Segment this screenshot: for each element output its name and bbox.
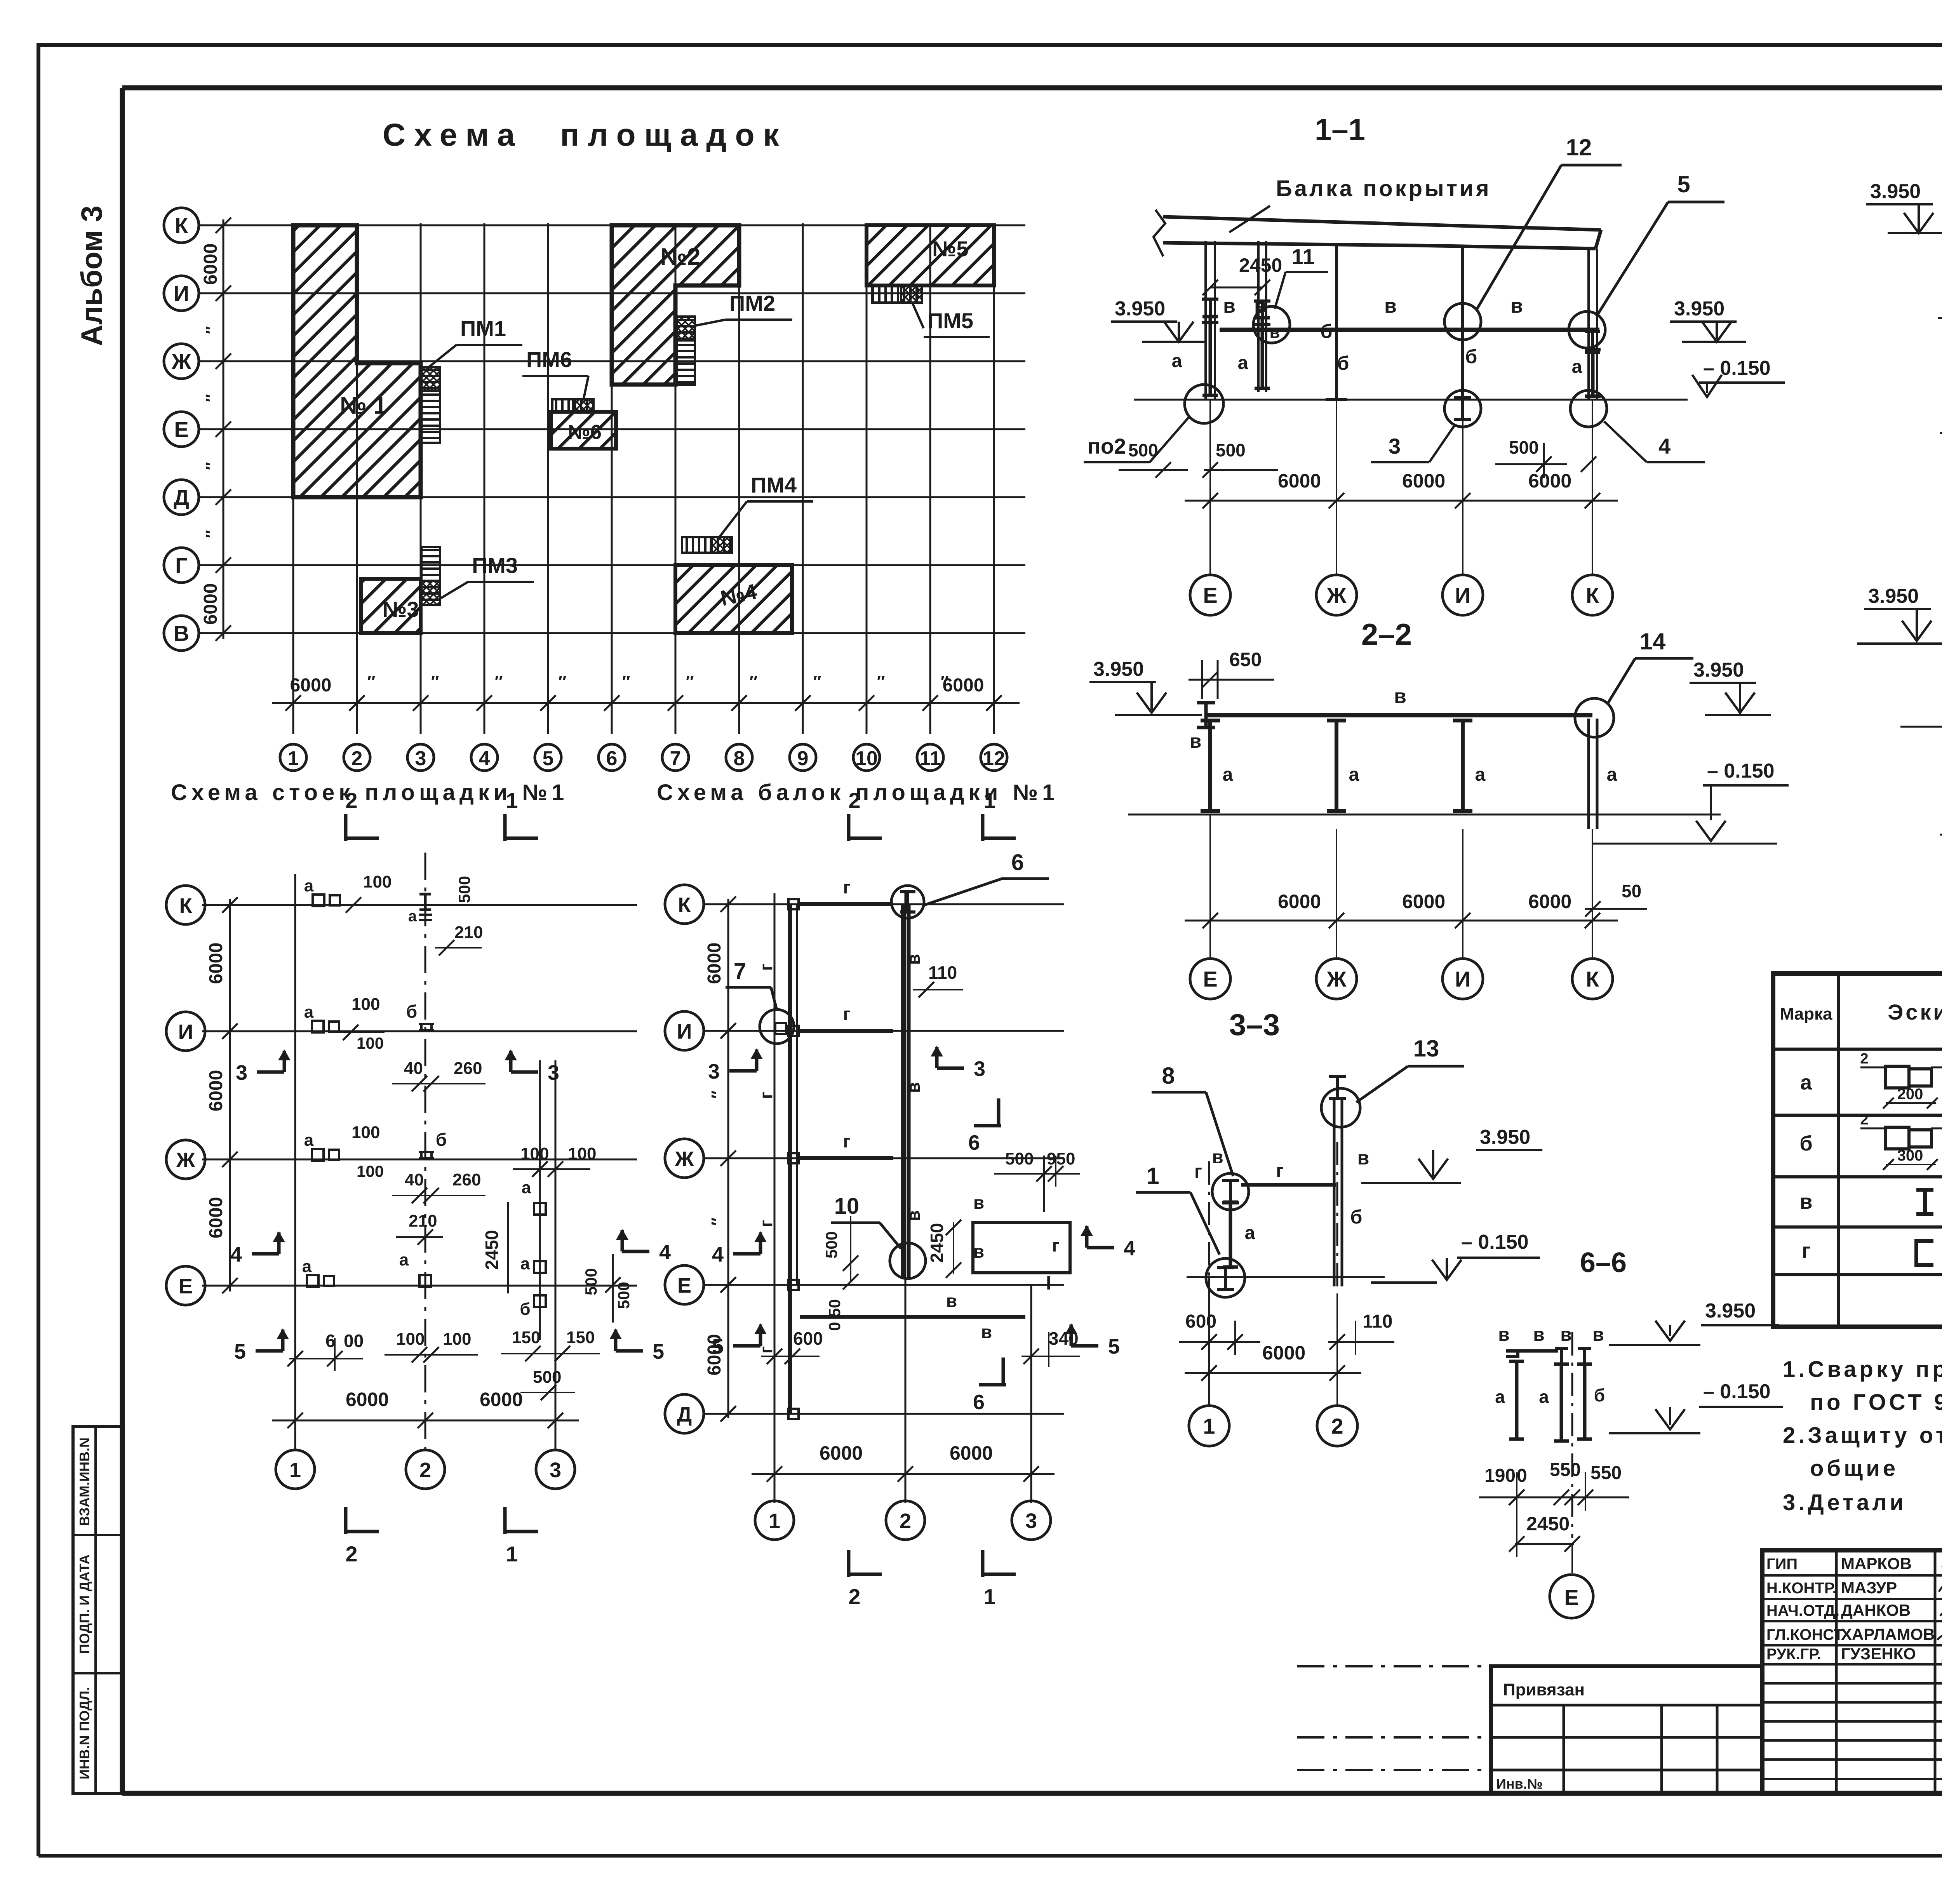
svg-text:″: ″	[877, 672, 885, 691]
svg-text:6000: 6000	[1402, 891, 1445, 912]
svg-text:6000: 6000	[1278, 891, 1321, 912]
svg-text:3: 3	[1389, 434, 1401, 458]
svg-text:а: а	[1800, 1071, 1812, 1094]
posts layout column axes	[294, 874, 296, 1449]
svg-text:а: а	[1495, 1387, 1505, 1407]
svg-text:6000: 6000	[1262, 1342, 1305, 1364]
beams section 6 cut marks	[974, 1124, 1001, 1128]
row a sketch	[1886, 1066, 1932, 1088]
svg-text:190: 190	[1484, 1465, 1516, 1486]
svg-text:100: 100	[357, 1034, 384, 1052]
svg-text:500: 500	[822, 1231, 840, 1258]
svg-text:в: в	[1592, 1324, 1604, 1345]
svg-text:″: ″	[813, 672, 821, 691]
platform N6 monorail PM6	[552, 399, 593, 412]
plan row circles	[164, 208, 199, 243]
svg-text:″: ″	[202, 394, 221, 402]
svg-text:3.950: 3.950	[1480, 1126, 1530, 1149]
svg-text:а: а	[1238, 353, 1248, 373]
svg-text:3.950: 3.950	[1705, 1300, 1756, 1322]
svg-text:2: 2	[1860, 1112, 1868, 1128]
svg-text:5: 5	[1108, 1335, 1120, 1358]
beams cut marks top	[847, 814, 851, 841]
node circle at И beam (1-1)	[1444, 303, 1481, 340]
platform N1 monorail PM1	[421, 367, 440, 443]
svg-text:в: в	[1223, 295, 1236, 317]
posts section cut marks top	[344, 814, 348, 841]
svg-text:ГЛ.КОНСТ: ГЛ.КОНСТ	[1766, 1626, 1843, 1643]
svg-text:б: б	[1799, 1132, 1812, 1155]
svg-text:6000: 6000	[346, 1389, 389, 1410]
column 1 (3-3)	[1208, 1161, 1210, 1295]
svg-text:6: 6	[973, 1391, 985, 1414]
svg-text:ПМ3: ПМ3	[472, 553, 518, 578]
svg-text:3.950: 3.950	[1870, 180, 1921, 203]
svg-text:№6: №6	[568, 421, 602, 444]
svg-text:8: 8	[1162, 1063, 1175, 1089]
ground line (5-5)	[1900, 726, 1942, 728]
sections table frame	[1773, 973, 1942, 1327]
beam g (3-3)	[1241, 1183, 1336, 1187]
platform N3 hatched area	[361, 579, 421, 633]
svg-text:ПМ2: ПМ2	[729, 291, 775, 315]
ground line (2-2)	[1128, 814, 1721, 816]
svg-text:6000: 6000	[704, 943, 725, 984]
inner drawing frame	[122, 85, 1942, 91]
svg-text:г: г	[843, 1131, 850, 1151]
ground line (4-4)	[1938, 317, 1942, 319]
svg-text:6: 6	[1011, 850, 1024, 875]
svg-text:б: б	[520, 1300, 530, 1319]
svg-text:ГИП: ГИП	[1766, 1556, 1798, 1573]
platform N1 hatched area	[293, 225, 421, 497]
svg-text:№3: №3	[383, 597, 419, 621]
svg-text:в: в	[1510, 295, 1523, 317]
svg-text:в: в	[1394, 685, 1406, 708]
svg-text:а: а	[1223, 764, 1233, 785]
svg-text:6000: 6000	[290, 675, 332, 696]
svg-text:″: ″	[940, 672, 948, 691]
auxiliary column at 2450 (1-1)	[1257, 241, 1260, 392]
svg-text:3: 3	[974, 1057, 985, 1081]
svg-text:в: в	[1799, 1190, 1812, 1213]
platform N2 hatched area	[612, 225, 739, 385]
beams layout row axes	[705, 903, 1064, 905]
svg-text:2: 2	[848, 788, 860, 813]
beams vertical beam at col2	[901, 904, 905, 1278]
svg-text:а: а	[520, 1254, 530, 1273]
svg-text:Инв.№: Инв.№	[1496, 1776, 1543, 1792]
svg-text:Д: Д	[677, 1403, 692, 1426]
svg-text:в: в	[903, 954, 924, 965]
svg-text:3: 3	[548, 1061, 559, 1084]
svg-text:ПМ6: ПМ6	[526, 347, 572, 372]
svg-text:″: ″	[202, 326, 221, 334]
svg-text:100: 100	[352, 995, 380, 1014]
top beam (2-2)	[1206, 713, 1592, 717]
svg-text:1: 1	[289, 1458, 301, 1482]
posts node squares row E	[307, 1275, 318, 1287]
svg-text:550: 550	[1590, 1463, 1622, 1483]
svg-text:Е: Е	[1203, 583, 1217, 607]
svg-text:в: в	[1269, 323, 1280, 342]
svg-text:в: в	[973, 1192, 984, 1213]
title block signature table	[1762, 1550, 1942, 1794]
columns (2-2)	[1208, 721, 1212, 811]
svg-text:6000: 6000	[206, 943, 226, 984]
svg-text:2450: 2450	[927, 1223, 947, 1263]
svg-text:НАЧ.ОТД.: НАЧ.ОТД.	[1766, 1602, 1839, 1619]
svg-text:а: а	[1539, 1387, 1549, 1407]
beams layout bottom dim line	[752, 1473, 1055, 1475]
svg-text:Е: Е	[179, 1275, 193, 1298]
svg-text:3.950: 3.950	[1674, 298, 1724, 320]
sections table header rows	[1773, 1048, 1942, 1051]
column K (2-2)	[1587, 719, 1590, 829]
plan row axis lines	[199, 225, 1025, 226]
svg-text:Е: Е	[174, 417, 188, 442]
beams cut marks bottom	[847, 1550, 851, 1577]
svg-text:6000: 6000	[200, 244, 221, 285]
svg-text:1: 1	[1146, 1163, 1159, 1189]
svg-text:Ж: Ж	[675, 1147, 694, 1171]
svg-text:в: в	[1384, 295, 1397, 317]
svg-text:И: И	[677, 1020, 692, 1043]
svg-text:в: в	[1357, 1147, 1369, 1169]
platform N2 monorail PM2	[677, 317, 695, 385]
svg-text:І: І	[1046, 1272, 1051, 1294]
svg-text:1: 1	[506, 1542, 518, 1566]
svg-text:0: 0	[1517, 1465, 1527, 1486]
svg-text:150: 150	[566, 1328, 595, 1347]
svg-text:в: в	[973, 1241, 984, 1262]
svg-text:в: в	[1560, 1324, 1572, 1345]
svg-text:МАРКОВ: МАРКОВ	[1841, 1554, 1912, 1573]
svg-text:110: 110	[928, 962, 957, 983]
platform N3 monorail PM3	[421, 547, 440, 605]
base node circles (1-1)	[1185, 385, 1223, 423]
svg-text:Е: Е	[1203, 967, 1217, 991]
svg-text:И: И	[178, 1020, 193, 1044]
svg-text:2: 2	[352, 747, 363, 770]
svg-text:1: 1	[1203, 1414, 1215, 1438]
svg-text:г: г	[756, 1220, 776, 1227]
posts node squares row K	[313, 895, 324, 906]
svg-text:2: 2	[345, 1542, 357, 1566]
beams layout row circles	[665, 885, 704, 924]
svg-text:б: б	[1350, 1206, 1363, 1228]
svg-text:6000: 6000	[1528, 891, 1571, 912]
svg-text:210: 210	[454, 923, 483, 942]
svg-text:2450: 2450	[482, 1230, 502, 1270]
svg-text:а: а	[1349, 764, 1359, 785]
svg-text:а: а	[399, 1250, 409, 1269]
svg-text:40: 40	[405, 1170, 424, 1189]
beams horizontal beams	[800, 902, 893, 906]
svg-text:6000: 6000	[480, 1389, 523, 1410]
svg-text:8: 8	[734, 747, 745, 770]
svg-text:110: 110	[1363, 1311, 1392, 1332]
svg-text:650: 650	[1229, 649, 1262, 670]
svg-text:1: 1	[769, 1509, 780, 1533]
column 2 upper part (3-3)	[1336, 1077, 1339, 1098]
left stamp boxes	[73, 1426, 124, 1793]
svg-text:2450: 2450	[1526, 1513, 1570, 1535]
svg-text:100: 100	[352, 1123, 380, 1142]
svg-text:6–6: 6–6	[1580, 1247, 1627, 1278]
svg-text:7: 7	[670, 747, 681, 770]
svg-text:И: И	[1455, 967, 1470, 991]
svg-text:100: 100	[520, 1144, 549, 1163]
main dimension line (4-4)	[1940, 432, 1942, 434]
posts node squares row Zh	[312, 1149, 324, 1161]
beams layout column axes	[774, 893, 776, 1503]
svg-text:6: 6	[325, 1331, 336, 1351]
svg-text:3: 3	[550, 1458, 561, 1482]
svg-text:а: а	[304, 1002, 314, 1022]
svg-text:50: 50	[1622, 881, 1641, 901]
plan column circles	[280, 744, 306, 771]
svg-text:4: 4	[479, 747, 490, 770]
svg-text:500: 500	[1216, 440, 1246, 460]
svg-text:2.Защиту от коррозии: 2.Защиту от коррозии	[1783, 1423, 1942, 1448]
svg-text:а: а	[408, 908, 417, 925]
svg-text:2: 2	[345, 788, 357, 813]
svg-text:5: 5	[543, 747, 554, 770]
plan column axis lines	[292, 223, 294, 734]
svg-text:″: ″	[202, 462, 221, 470]
main dimension line (1-1)	[1185, 500, 1618, 502]
svg-text:6000: 6000	[950, 1442, 993, 1464]
svg-text:3.Детали: 3.Детали	[1783, 1490, 1907, 1515]
posts layout row axes	[202, 904, 637, 906]
svg-text:б: б	[406, 1001, 417, 1022]
svg-text:500: 500	[1005, 1149, 1034, 1168]
svg-text:площадок: площадок	[560, 117, 788, 153]
svg-text:3.950: 3.950	[1693, 659, 1744, 681]
svg-text:ХАРЛАМОВ: ХАРЛАМОВ	[1841, 1625, 1935, 1643]
svg-text:300: 300	[1897, 1147, 1923, 1164]
svg-text:3: 3	[415, 747, 426, 770]
svg-text:б: б	[1321, 320, 1333, 342]
svg-text:6000: 6000	[206, 1070, 226, 1112]
platform N4 monorail PM4	[682, 537, 732, 553]
svg-text:ВЗАМ.ИНВ.N: ВЗАМ.ИНВ.N	[77, 1438, 92, 1526]
svg-text:1.Сварку производить электрода: 1.Сварку производить электродами типа Э4…	[1783, 1357, 1942, 1382]
svg-text:6000: 6000	[943, 675, 984, 696]
ground line (1-1)	[1134, 399, 1688, 401]
svg-text:ПМ5: ПМ5	[927, 308, 973, 333]
svg-text:600: 600	[1185, 1311, 1216, 1332]
svg-text:г: г	[756, 963, 776, 971]
svg-text:″: ″	[202, 530, 221, 538]
svg-text:№2: №2	[660, 244, 701, 270]
svg-text:″: ″	[494, 672, 503, 691]
svg-text:″: ″	[367, 672, 375, 691]
svg-text:6000: 6000	[206, 1197, 226, 1239]
svg-text:500: 500	[455, 876, 473, 903]
svg-text:1–1: 1–1	[1315, 112, 1365, 146]
svg-text:200: 200	[1897, 1086, 1923, 1103]
svg-text:2: 2	[900, 1509, 911, 1533]
svg-text:100: 100	[443, 1330, 471, 1349]
svg-text:а: а	[1475, 764, 1486, 785]
svg-text:6000: 6000	[200, 583, 221, 625]
svg-text:2: 2	[1331, 1414, 1343, 1438]
svg-text:а: а	[1607, 764, 1617, 785]
svg-text:5: 5	[712, 1335, 724, 1358]
svg-text:Привязан: Привязан	[1503, 1680, 1585, 1699]
posts node squares row I	[312, 1021, 324, 1032]
svg-text:по2: по2	[1088, 434, 1126, 458]
svg-text:4: 4	[1658, 434, 1671, 458]
column E (1-1)	[1204, 241, 1207, 399]
privyazan box	[1491, 1666, 1762, 1794]
svg-text:К: К	[1586, 967, 1599, 991]
svg-text:5: 5	[1677, 171, 1690, 197]
svg-text:5: 5	[653, 1340, 664, 1363]
svg-text:г: г	[756, 1091, 776, 1099]
svg-text:б: б	[1594, 1385, 1605, 1405]
svg-text:3.950: 3.950	[1115, 298, 1165, 320]
svg-text:Схема: Схема	[383, 117, 524, 153]
svg-text:2: 2	[419, 1458, 431, 1482]
svg-text:550: 550	[1550, 1460, 1581, 1480]
svg-text:″: ″	[749, 672, 757, 691]
svg-text:9: 9	[797, 747, 809, 770]
svg-text:11: 11	[920, 747, 941, 770]
svg-text:2: 2	[1860, 1051, 1868, 1067]
svg-text:г: г	[1194, 1161, 1202, 1182]
svg-text:В: В	[174, 621, 189, 646]
svg-text:500: 500	[1509, 437, 1539, 458]
column Ж (1-1)	[1335, 245, 1338, 399]
svg-text:″: ″	[622, 672, 630, 691]
svg-text:ДАНКОВ: ДАНКОВ	[1841, 1601, 1911, 1619]
svg-text:11: 11	[1291, 244, 1314, 269]
svg-text:Е: Е	[677, 1274, 691, 1297]
svg-text:4: 4	[230, 1243, 242, 1266]
svg-text:10: 10	[834, 1194, 860, 1219]
svg-text:а: а	[1172, 351, 1182, 371]
svg-text:210: 210	[409, 1211, 437, 1230]
grid circles (2-2)	[1190, 959, 1230, 999]
svg-text:Е: Е	[1564, 1585, 1578, 1610]
svg-text:6: 6	[968, 1131, 980, 1154]
plan left dimension line	[223, 219, 224, 639]
grid circles (3-3)	[1189, 1406, 1229, 1446]
svg-text:– 0.150: – 0.150	[1707, 760, 1775, 782]
beams node circle 10	[890, 1243, 926, 1279]
main dimension line (5-5)	[1940, 834, 1942, 836]
node circle at К beam (1-1)	[1569, 312, 1605, 348]
svg-text:2450: 2450	[1239, 254, 1282, 276]
svg-text:6000: 6000	[820, 1442, 863, 1464]
svg-text:И: И	[1455, 583, 1470, 607]
svg-text:1: 1	[506, 788, 518, 813]
svg-text:Альбом 3: Альбом 3	[75, 205, 108, 346]
svg-text:14: 14	[1640, 628, 1666, 654]
svg-text:ПМ1: ПМ1	[460, 316, 506, 341]
svg-text:– 0.150: – 0.150	[1703, 357, 1771, 379]
svg-text:а: а	[1245, 1223, 1255, 1243]
svg-text:Марка: Марка	[1780, 1004, 1832, 1023]
svg-text:0: 0	[825, 1322, 844, 1331]
posts layout row circles	[166, 886, 205, 924]
svg-text:40: 40	[404, 1059, 423, 1078]
svg-text:г: г	[1276, 1161, 1284, 1181]
svg-text:К: К	[678, 893, 691, 917]
svg-text:а: а	[304, 876, 314, 895]
svg-text:4: 4	[712, 1243, 724, 1266]
svg-text:в: в	[1190, 730, 1202, 752]
svg-text:″: ″	[686, 672, 694, 691]
svg-text:260: 260	[454, 1059, 482, 1078]
svg-text:а: а	[304, 1131, 314, 1150]
svg-text:№ 1: № 1	[340, 392, 387, 419]
svg-text:И: И	[174, 281, 189, 306]
svg-text:10: 10	[855, 747, 878, 770]
svg-text:а: а	[522, 1178, 531, 1197]
svg-text:1: 1	[983, 1584, 995, 1609]
svg-text:12: 12	[1566, 134, 1592, 160]
svg-text:Ж: Ж	[1326, 583, 1347, 607]
svg-text:в: в	[903, 1082, 924, 1093]
node circle 14 (2-2)	[1575, 698, 1614, 737]
svg-text:6000: 6000	[1278, 470, 1321, 492]
svg-text:б: б	[1465, 346, 1477, 367]
svg-text:Эскиз: Эскиз	[1888, 1000, 1942, 1024]
svg-text:ПМ4: ПМ4	[751, 473, 797, 497]
svg-text:№5: №5	[932, 237, 969, 261]
svg-text:в: в	[1533, 1324, 1545, 1345]
svg-text:6: 6	[606, 747, 618, 770]
posts col3 cluster	[539, 1060, 541, 1340]
svg-text:12: 12	[983, 747, 1005, 770]
svg-text:1: 1	[288, 747, 299, 770]
svg-text:К: К	[175, 213, 188, 238]
svg-text:″: ″	[708, 1217, 727, 1225]
svg-text:– 0.150: – 0.150	[1703, 1380, 1771, 1403]
svg-text:3–3: 3–3	[1229, 1008, 1280, 1042]
svg-text:3: 3	[708, 1060, 720, 1083]
svg-text:1: 1	[983, 788, 995, 813]
posts layout bottom dim line	[272, 1420, 579, 1422]
svg-text:600: 600	[793, 1328, 823, 1349]
svg-text:г: г	[1052, 1235, 1059, 1255]
svg-text:3.950: 3.950	[1868, 585, 1919, 607]
svg-text:4: 4	[659, 1241, 671, 1264]
posts section cut marks bottom	[344, 1507, 348, 1534]
posts layout bottom circles	[276, 1450, 315, 1489]
svg-text:РУК.ГР.: РУК.ГР.	[1766, 1646, 1821, 1663]
svg-text:г: г	[843, 877, 850, 897]
svg-text:100: 100	[396, 1330, 425, 1349]
svg-text:2: 2	[848, 1584, 860, 1609]
svg-text:100: 100	[357, 1162, 384, 1180]
svg-text:К: К	[1586, 583, 1599, 607]
beams section marks 3 4 5	[729, 1069, 757, 1073]
beams node circle 6	[891, 886, 924, 918]
svg-text:3.950: 3.950	[1093, 658, 1144, 680]
svg-text:Н.КОНТР.: Н.КОНТР.	[1766, 1580, 1837, 1597]
svg-text:в: в	[1498, 1324, 1510, 1345]
svg-text:Ж: Ж	[176, 1149, 196, 1172]
svg-text:Д: Д	[174, 485, 189, 510]
svg-text:Балка покрытия: Балка покрытия	[1276, 176, 1491, 201]
svg-text:2–2: 2–2	[1361, 617, 1412, 651]
column И (1-1)	[1461, 245, 1464, 399]
